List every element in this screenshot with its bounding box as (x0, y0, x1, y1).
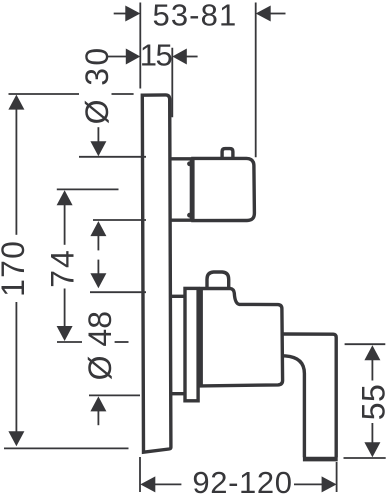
svg-text:15: 15 (140, 38, 172, 73)
svg-text:92-120: 92-120 (192, 465, 292, 500)
svg-text:Ø 48: Ø 48 (82, 311, 118, 380)
svg-text:170: 170 (0, 240, 31, 297)
svg-text:74: 74 (44, 248, 80, 288)
svg-text:53-81: 53-81 (153, 0, 238, 33)
svg-text:55: 55 (356, 384, 386, 421)
svg-text:Ø 30: Ø 30 (79, 45, 115, 124)
